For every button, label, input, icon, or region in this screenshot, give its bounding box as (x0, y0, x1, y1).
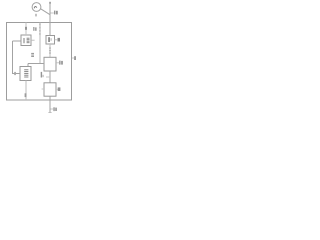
S1 inner mark (48, 37, 50, 42)
M1 inner text block (27, 38, 30, 43)
wire M1 left pin (13, 40, 22, 42)
label 30 (41, 72, 42, 78)
label 40 outside right leader tick (72, 57, 74, 59)
wire below frame to ground (49, 101, 51, 113)
mixer box M2 (20, 67, 31, 81)
label 16 (rotated digits) (31, 53, 34, 55)
wire M1 top pin from bus (25, 23, 27, 36)
label 10 leader tick (51, 12, 54, 14)
mixer box M1 (21, 35, 31, 46)
wire elbow down into M2 top (27, 64, 29, 67)
ground tick (48, 112, 51, 114)
wire vertical link x=12.5 (12, 41, 14, 74)
label 20 leader tick (56, 62, 59, 64)
label 20 (59, 61, 60, 65)
wire M1 right tick (31, 39, 35, 41)
source waveform mark inside G1 (34, 6, 37, 8)
label 30 leader tick (46, 76, 50, 78)
wire M3 bottom to frame (49, 96, 51, 100)
switch box S1 (46, 36, 55, 45)
label 34 leader tick (51, 108, 54, 110)
antenna tip cap (49, 2, 51, 4)
label 40 (74, 56, 76, 60)
M3 left tick (42, 88, 44, 90)
label 10 (54, 11, 55, 15)
label under circle (35, 14, 37, 17)
arrowhead on M1 top wire (25, 27, 27, 30)
M1 inner bar (23, 38, 25, 43)
wire: vertical antenna lead x=50 top (49, 2, 51, 35)
wire M2 bottom to frame (25, 81, 27, 101)
label 12 (58, 38, 61, 42)
M2 inner text block (24, 70, 28, 77)
outer dashed enclosure box (7, 23, 72, 101)
wire B1 to M3 (49, 71, 51, 83)
wire bus drop x=40 (39, 23, 41, 64)
AC source circle G1 (32, 3, 41, 12)
block M3 (44, 83, 56, 96)
label 12 leader tick (55, 39, 58, 41)
junction mark on M2 left wire (14, 72, 16, 75)
label 22 on M2 bottom wire (25, 93, 27, 97)
wire M2 left pin (13, 73, 21, 75)
wire S1 to B1 (dotted leader) (49, 44, 51, 57)
block B1 (44, 57, 56, 71)
label 32 (58, 87, 61, 91)
wire T horizontal into B1 (28, 63, 44, 65)
label 32 leader tick (56, 88, 58, 90)
label 34 (53, 107, 54, 111)
label 14 (33, 27, 34, 31)
wire: diagonal from source to node (40, 9, 50, 15)
